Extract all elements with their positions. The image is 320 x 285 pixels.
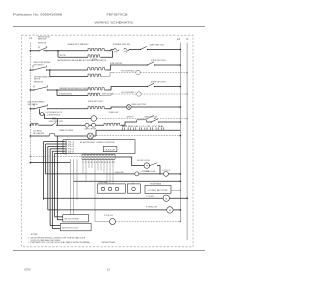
svg-text:2. COMPONENTS POS. IS IN THE: 2. COMPONENTS POS. IS IN THE OFFICE OF A… [28, 241, 90, 244]
junction row1 branch [57, 50, 59, 52]
wire door lock switch down [158, 166, 160, 174]
junction row3 branch [56, 89, 58, 91]
wire L2 bus [179, 43, 181, 222]
junction ticks row5 [52, 117, 54, 120]
wire row2b jog [102, 73, 113, 77]
svg-text:SURFACE UNIT 8" REAR RIGHT: SURFACE UNIT 8" REAR RIGHT [68, 43, 89, 46]
terminal strip comb under EOC [82, 153, 115, 155]
electronic oven control box [63, 140, 135, 154]
wire row2b dashed a [113, 72, 136, 74]
switch motor row6 [151, 121, 152, 122]
wire row1 to limit switch [129, 49, 141, 51]
terminal bank contacts [122, 127, 124, 130]
wire dashed latch to L2 [116, 221, 181, 223]
lamp oven light lower [135, 172, 139, 176]
wire row2 from L1 [30, 69, 32, 71]
svg-text:6/7/03: 6/7/03 [24, 269, 31, 272]
wire row4 to L2 [131, 106, 180, 108]
svg-text:SURF UNIT ONLY: SURF UNIT ONLY [151, 81, 167, 83]
switch S4 infinite switch row4 [33, 108, 34, 109]
wire lamp1 to row5 [44, 114, 91, 118]
connector P1 pins [63, 141, 65, 143]
bottom rule [13, 249, 205, 251]
box component B [127, 184, 140, 193]
svg-text:UNIT SWITCH: UNIT SWITCH [28, 104, 38, 106]
wire row4 right [113, 106, 127, 108]
svg-text:ELECTRONIC OVEN CONTROL: ELECTRONIC OVEN CONTROL [80, 142, 116, 144]
wire row6 from L1 [30, 124, 32, 126]
svg-text:(2 SOME MODELS): (2 SOME MODELS) [47, 115, 60, 117]
svg-text:1 2 3 4 5 6 7 8 9 10 11: 1 2 3 4 5 6 7 8 9 10 11 [82, 162, 115, 164]
wire row2 branch drop [49, 70, 51, 76]
wire row1b riser join [101, 51, 113, 57]
svg-text:INFINITE SW: INFINITE SW [38, 42, 46, 44]
fuse row6 thermal [136, 120, 138, 122]
svg-text:SURF UNIT SW: SURF UNIT SW [110, 63, 122, 65]
wire row1 to L2 [148, 49, 181, 51]
svg-text:OVEN VENT 120V: OVEN VENT 120V [49, 121, 63, 123]
svg-text:Publication No: 5995416968: Publication No: 5995416968 [13, 13, 62, 17]
wire row2b to N [140, 72, 187, 74]
svg-text:WIRING SCHEMATIC: WIRING SCHEMATIC [95, 20, 135, 24]
wire row6 between motors [89, 124, 92, 126]
relay contact row7 [49, 134, 51, 136]
wire row5 to N [155, 118, 188, 120]
svg-text:NOTES:: NOTES: [31, 234, 38, 236]
coil row6 vent [31, 123, 39, 125]
wires harness elbows to latch boxes [50, 225, 60, 227]
wire row1 branch drop [57, 51, 59, 57]
svg-text:OVEN LIGHT SW: OVEN LIGHT SW [144, 116, 157, 118]
wire row7 dashed to L2 [93, 135, 96, 137]
wire row2 to L2 [155, 64, 181, 66]
wire row3b dashed a [113, 93, 137, 95]
coil row6 element [104, 123, 121, 125]
svg-text:4-DCF: 4-DCF [105, 150, 116, 152]
wire oven light lower [46, 173, 135, 175]
svg-text:BK DOOR SW: BK DOOR SW [65, 219, 80, 221]
wire comb drop 70 [69, 159, 71, 214]
wire comb drop 77 [76, 159, 78, 200]
wire row2b [50, 75, 88, 77]
lamp door latch [110, 219, 116, 225]
svg-text:CONV MOTOR: CONV MOTOR [148, 190, 169, 192]
motor vent fan A [85, 123, 89, 127]
wire row1 from L1 [30, 50, 32, 52]
wire row6 jog [121, 122, 137, 125]
wires comb drops short [82, 159, 84, 174]
svg-text:OVEN LITE SW: OVEN LITE SW [84, 129, 96, 131]
wire row3 branch drop [56, 90, 58, 96]
wire row7 mid [55, 135, 88, 137]
svg-text:INNER COIL RELAY: INNER COIL RELAY [59, 129, 74, 132]
svg-text:SURFACE UNIT SW: SURFACE UNIT SW [113, 43, 130, 46]
wire N bus [186, 43, 188, 241]
switch limiter row3 [147, 86, 148, 87]
wire row1b [58, 56, 88, 58]
svg-text:M: M [165, 198, 167, 200]
wire row2 right [113, 64, 148, 66]
wire row6 to switch [147, 121, 152, 123]
svg-text:N: N [186, 37, 188, 41]
box component C [145, 185, 171, 193]
connector pair row1 b [124, 48, 126, 49]
svg-text:P DR LK: P DR LK [104, 215, 114, 217]
wire row5 mid [97, 118, 148, 120]
switch door lock [149, 165, 150, 166]
wire comb drop to latch lamp [95, 159, 110, 221]
box door latch lower [60, 223, 91, 230]
switch limiter row1 [140, 49, 141, 50]
svg-text:OVEN LIGHT: OVEN LIGHT [109, 112, 120, 114]
coil row2b element inner [88, 74, 102, 76]
wire row3b [57, 95, 88, 97]
svg-text:DBL LINE BRK: DBL LINE BRK [33, 133, 45, 135]
coil row2 element outer [88, 68, 106, 70]
wire lamp1 drop left [39, 109, 41, 114]
svg-text:OVEN LIGHT 120V: OVEN LIGHT 120V [131, 104, 147, 106]
wire row6 to L2 [159, 121, 181, 123]
svg-text:INFINITE SW: INFINITE SW [38, 39, 47, 41]
wire L1 solid branch [30, 162, 32, 164]
wire EOC to door lock motor [115, 157, 144, 166]
lamp oven lamp crossed [87, 133, 93, 139]
switch vent row6 [52, 125, 53, 126]
lamp hot surface row2b [136, 70, 140, 74]
svg-text:P6: P6 [124, 52, 127, 54]
svg-text:TEMPERATURE LIMITER AND HOT S: TEMPERATURE LIMITER AND HOT SURF IND [59, 87, 90, 90]
wire row3 from L1 [30, 89, 32, 91]
wires P1 harness elbows [43, 141, 63, 143]
coil row3b element inner [88, 93, 101, 95]
wires comb drops to boxes [106, 159, 108, 183]
svg-text:SURF UNIT ONLY: SURF UNIT ONLY [88, 101, 104, 103]
lamp hot surface indicator [40, 113, 43, 116]
motor door lock [144, 163, 150, 169]
svg-text:SURF UNIT ONLY: SURF UNIT ONLY [150, 45, 166, 47]
wire row6 mid2 [96, 124, 104, 126]
wire row3b jog [101, 94, 113, 96]
wire row3 jog [106, 87, 114, 91]
inner box display [103, 147, 117, 152]
switch oven light door sw [147, 118, 148, 119]
switch S1 infinite switch row1 [38, 50, 39, 51]
wire harness vertical from row7 [57, 136, 63, 220]
switch S2 infinite switch row2 [32, 69, 33, 70]
wire row6 mid [57, 124, 85, 126]
box component A [98, 184, 126, 193]
wire row4 jog [106, 107, 114, 109]
svg-text:L2: L2 [177, 37, 180, 41]
svg-text:M: M [169, 210, 171, 212]
wire selector bank riser [95, 130, 97, 136]
svg-text:P1-6: P1-6 [68, 153, 74, 155]
lamp oven light 1 [91, 116, 97, 122]
connector pair row1 a [114, 48, 116, 49]
motor lower A [163, 195, 169, 201]
wire row2 mid [47, 69, 88, 71]
lamp oven light crossed row4 [127, 105, 132, 110]
wires harness verticals [42, 142, 44, 200]
lamp hot surface row3b [137, 92, 141, 96]
svg-text:10 TW: 10 TW [60, 55, 67, 57]
svg-text:DR DOOR LOCK: DR DOOR LOCK [62, 228, 79, 230]
svg-text:DOOR LOCK: DOOR LOCK [137, 160, 151, 162]
coil row1b element inner [88, 55, 101, 57]
wire L1 dashed to comb [30, 155, 32, 157]
wire box C to L2 [171, 189, 180, 191]
svg-text:FEF367XCB: FEF367XCB [107, 13, 128, 17]
wire row4 mid [48, 108, 89, 110]
wire lower row B [74, 180, 181, 182]
coil row3 element outer [88, 88, 106, 90]
box door latch upper [63, 215, 89, 222]
svg-text:UNIT SWITCH: UNIT SWITCH [34, 65, 44, 67]
wire row1 mid [44, 50, 89, 52]
junction row2 branch [49, 69, 51, 71]
wire lower motor B [48, 209, 167, 211]
coil row1 element outer [88, 49, 106, 51]
svg-text:SWITCH: SWITCH [34, 79, 40, 81]
svg-text:INFINITE SW: INFINITE SW [34, 82, 43, 84]
svg-text:HOT SURF IND LT: HOT SURF IND LT [122, 92, 137, 94]
wire motor B to L2 [173, 209, 180, 211]
wire lower motor A [43, 197, 162, 199]
svg-text:5W RTX: 5W RTX [127, 116, 135, 118]
wire motor A to N [170, 197, 188, 199]
wire row3 mid [48, 89, 89, 91]
wire oven light lower to L2 [168, 173, 180, 175]
svg-text:P CONV: P CONV [147, 196, 155, 198]
wire row7 from L1 [30, 135, 32, 137]
wire row3 to L2 [155, 86, 181, 88]
svg-text:P DR LK SW: P DR LK SW [145, 171, 155, 173]
wire row4 from L1 [30, 108, 32, 110]
lamp lock light [164, 172, 169, 177]
svg-text:SURF UNIT ONLY: SURF UNIT ONLY [151, 60, 167, 62]
wire row6 left mid [39, 124, 52, 126]
svg-text:P OVEN LITE: P OVEN LITE [146, 207, 158, 209]
svg-text:P5: P5 [114, 52, 117, 54]
wire vent riser [56, 119, 58, 126]
motor vent fan B [92, 123, 96, 127]
switch S3 infinite switch row3 [33, 89, 34, 90]
wire L1 bus [29, 43, 31, 163]
wire oven light lower mid [139, 173, 164, 175]
svg-text:5995417063: 5995417063 [101, 242, 116, 244]
header rule [13, 25, 205, 27]
coil row4 element [88, 107, 106, 109]
motor lower B [167, 207, 173, 213]
wire row3b to N [141, 93, 187, 95]
svg-text:CONV FAN: CONV FAN [98, 181, 108, 184]
wire comb drop 73 [73, 159, 75, 214]
wire selector bank [96, 129, 180, 131]
wire row2 jog [106, 65, 113, 70]
symbols in box A [101, 187, 104, 190]
schematic dash-dot border frame [21, 35, 193, 247]
wire row3 right [113, 86, 148, 88]
switch limiter row2 [147, 64, 148, 65]
svg-text:HOT SURF IND LT: HOT SURF IND LT [122, 70, 137, 72]
wire row1 jog [106, 50, 115, 51]
svg-text:TEMPERATURE LIMITER AND HOT S: TEMPERATURE LIMITER AND HOT SURFACE INDI… [57, 59, 106, 62]
